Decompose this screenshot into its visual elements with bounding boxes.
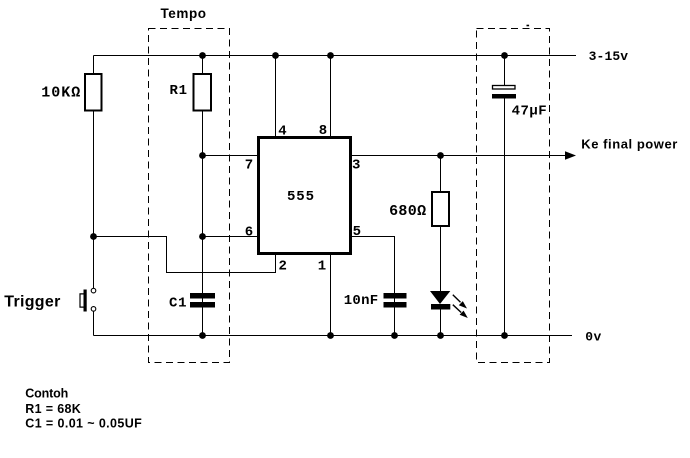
svg-text:555: 555: [287, 189, 314, 205]
svg-text:3-15v: 3-15v: [589, 49, 629, 64]
svg-text:6: 6: [245, 224, 253, 240]
svg-text:8: 8: [319, 123, 327, 139]
svg-text:2: 2: [278, 258, 286, 274]
svg-text:1: 1: [318, 258, 326, 274]
svg-text:4: 4: [278, 123, 286, 139]
svg-text:3: 3: [352, 158, 360, 174]
svg-text:Tempo: Tempo: [161, 6, 207, 21]
svg-text:10nF: 10nF: [344, 293, 379, 309]
svg-text:C1: C1: [169, 296, 187, 312]
svg-text:680Ω: 680Ω: [389, 203, 426, 220]
svg-text:C1 = 0.01 ~ 0.05UF: C1 = 0.01 ~ 0.05UF: [25, 417, 142, 431]
svg-text:47µF: 47µF: [512, 104, 547, 120]
svg-text:0v: 0v: [585, 329, 601, 344]
svg-text:R1 = 68K: R1 = 68K: [25, 402, 81, 416]
svg-text:Ke final power: Ke final power: [581, 137, 677, 152]
svg-text:7: 7: [245, 158, 253, 174]
svg-text:10KΩ: 10KΩ: [41, 84, 80, 101]
svg-text:R1: R1: [170, 83, 188, 99]
svg-text:Trigger: Trigger: [4, 294, 60, 311]
svg-text:5: 5: [353, 224, 361, 240]
svg-text:Contoh: Contoh: [25, 387, 68, 401]
